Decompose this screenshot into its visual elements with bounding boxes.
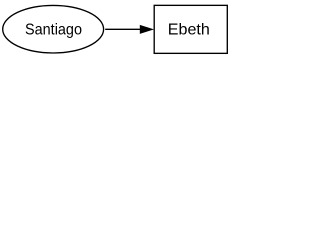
svg-text:Ebeth: Ebeth [168, 22, 210, 39]
svg-text:Santiago: Santiago [25, 22, 82, 39]
